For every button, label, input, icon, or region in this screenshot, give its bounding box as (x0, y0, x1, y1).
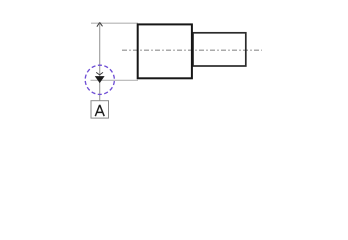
datum letter A (95, 105, 104, 116)
dimension arrow down (96, 72, 103, 75)
large cylinder (left rectangle) (138, 24, 192, 78)
highlight circle (dashed) (85, 65, 114, 94)
datum label frame (91, 101, 109, 118)
dimension leader line (vertical) (99, 24, 101, 101)
datum triangle (filled) (95, 76, 105, 83)
dimension arrow up (97, 22, 103, 26)
extension line top (91, 22, 138, 24)
extension line bottom (91, 79, 139, 81)
centerline (dash-dot axis) (122, 49, 262, 51)
small cylinder (right rectangle) (193, 33, 246, 66)
